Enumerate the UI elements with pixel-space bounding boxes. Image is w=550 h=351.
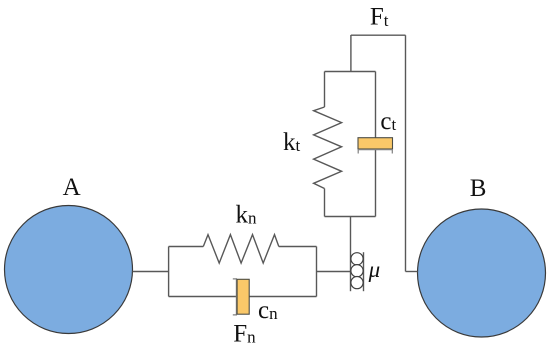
normal box top-right wire: [279, 246, 317, 248]
friction roller 3: [351, 277, 363, 289]
damper ct piston: [358, 138, 393, 149]
damper cn piston: [237, 279, 249, 314]
normal box top-left wire: [169, 246, 204, 248]
tangential box left lower wire: [324, 189, 326, 217]
tangential box top wire: [325, 71, 376, 73]
friction roller 2: [351, 265, 363, 277]
svg-text:μ: μ: [368, 257, 381, 282]
tangential box bottom wire: [325, 216, 376, 218]
tangential box left upper wire: [324, 72, 326, 108]
wire normal box to friction: [317, 271, 351, 273]
wire into B: [406, 271, 418, 273]
stub wire from Ft bar down to tangential box: [350, 35, 352, 72]
spring kt: [314, 107, 342, 189]
friction roller 1: [351, 253, 363, 265]
friction right plate wire: [363, 252, 365, 291]
normal box right edge wire: [316, 247, 318, 297]
wire from Ft bar down to B: [405, 35, 407, 271]
damper ct bracket: [358, 150, 392, 154]
svg-text:B: B: [470, 175, 487, 202]
particle B circle: [418, 209, 546, 337]
normal box left edge wire: [168, 247, 170, 297]
friction left plate wire: [350, 217, 352, 292]
particle A circle: [5, 206, 133, 334]
wire A to normal box: [133, 271, 169, 273]
tangential box right edge wire: [375, 72, 377, 217]
svg-text:A: A: [63, 174, 81, 201]
normal box bottom wire: [169, 296, 317, 298]
spring kn: [203, 235, 278, 264]
Ft top wire: [351, 34, 406, 36]
damper cn bracket: [233, 279, 237, 315]
